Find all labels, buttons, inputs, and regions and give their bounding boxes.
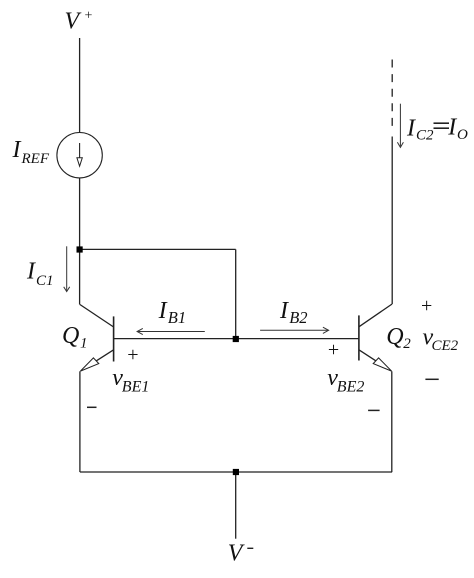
svg-text:BE2: BE2 <box>337 378 365 395</box>
label vBE1 <box>112 365 149 395</box>
polarity - for vBE1 <box>87 406 97 408</box>
svg-text:+: + <box>328 339 339 361</box>
svg-text:I: I <box>447 115 457 141</box>
svg-text:+: + <box>421 295 432 317</box>
svg-text:V: V <box>228 540 245 566</box>
label vCE2 <box>423 324 459 353</box>
svg-text:2: 2 <box>403 336 411 352</box>
wire: V+ lead down to current source <box>79 38 81 133</box>
svg-text:O: O <box>457 127 468 143</box>
svg-text:C2: C2 <box>416 127 434 143</box>
label IREF <box>12 137 50 167</box>
current arrow IC2 <box>397 104 403 148</box>
svg-text:CE2: CE2 <box>432 338 459 354</box>
svg-text:+: + <box>127 344 138 366</box>
svg-text:C1: C1 <box>36 273 54 289</box>
wire: bottom bus <box>80 471 392 473</box>
label IB1 <box>158 298 187 327</box>
svg-text:I: I <box>12 137 22 163</box>
transistor Q2 <box>359 304 392 371</box>
label IC2 = IO <box>406 115 468 144</box>
current arrow IB2 <box>260 327 329 333</box>
svg-text:REF: REF <box>21 151 50 167</box>
svg-text:B1: B1 <box>168 308 186 327</box>
label IC1 <box>26 259 54 289</box>
svg-text:I: I <box>158 298 168 324</box>
svg-text:1: 1 <box>80 335 88 351</box>
current arrow IC1 <box>64 246 70 291</box>
wire: current source to Q1 collector <box>79 178 81 305</box>
svg-text:+: + <box>85 9 93 24</box>
transistor Q1 <box>80 305 114 372</box>
wire: Q2 collector solid segment <box>391 137 393 305</box>
node B: base bus junction <box>233 336 239 342</box>
label vBE2 <box>327 365 364 395</box>
svg-text:I: I <box>279 298 289 324</box>
label Q1 <box>62 323 88 351</box>
label V- supply <box>228 540 254 566</box>
wire: Q2 collector dashed segment <box>391 60 393 132</box>
svg-text:Q: Q <box>386 324 403 350</box>
node A: collector-base tie point <box>77 246 83 252</box>
wire: feedback vertical drop <box>235 249 237 339</box>
wire: Q2 emitter drop <box>391 371 393 472</box>
svg-text:BE1: BE1 <box>122 378 150 395</box>
current arrow IB1 <box>137 328 205 334</box>
svg-text:V: V <box>65 9 82 35</box>
label Q2 <box>386 324 411 352</box>
wire: base bus Q1 to Q2 <box>114 338 359 340</box>
label IB2 <box>279 298 308 327</box>
label V+ supply <box>65 9 93 35</box>
polarity - for vCE2 <box>425 378 438 380</box>
wire: bottom stub to V- <box>235 472 237 539</box>
current source IREF <box>57 133 102 178</box>
node C: bottom bus junction <box>233 469 239 475</box>
svg-text:Q: Q <box>62 323 79 349</box>
polarity - for vBE2 <box>368 409 380 411</box>
svg-text:I: I <box>26 259 36 285</box>
wire: Q1 emitter drop <box>79 371 81 472</box>
wire: feedback horizontal (collector tie to base) <box>80 248 236 250</box>
svg-text:I: I <box>406 115 416 141</box>
svg-text:B2: B2 <box>289 308 307 327</box>
